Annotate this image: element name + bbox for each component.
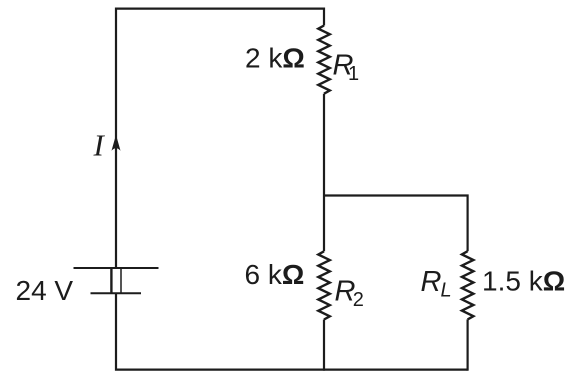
wire R2 bottom lead (323, 320, 325, 371)
svg-text:24 V: 24 V (16, 275, 74, 306)
wire top (battery + to R1 top) (116, 9, 324, 269)
svg-text:I: I (93, 128, 106, 163)
svg-text:R: R (421, 266, 442, 298)
resistor R1 (318, 26, 330, 94)
svg-text:2: 2 (353, 289, 364, 311)
wire bottom (return to battery -) (116, 293, 468, 369)
battery V 24 V (74, 268, 159, 293)
resistor R2 (318, 251, 330, 319)
current arrow I (112, 135, 121, 151)
resistor RL (462, 251, 474, 319)
wire RL bottom lead (467, 319, 469, 370)
svg-text:6 kΩ: 6 kΩ (245, 259, 305, 290)
svg-text:L: L (441, 280, 452, 302)
wire node A branch to RL top (324, 196, 468, 252)
wire R1 bottom to node A to R2 top (323, 94, 325, 252)
svg-text:2 kΩ: 2 kΩ (245, 43, 305, 74)
svg-text:1: 1 (348, 63, 359, 85)
svg-text:1.5 kΩ: 1.5 kΩ (482, 266, 565, 297)
